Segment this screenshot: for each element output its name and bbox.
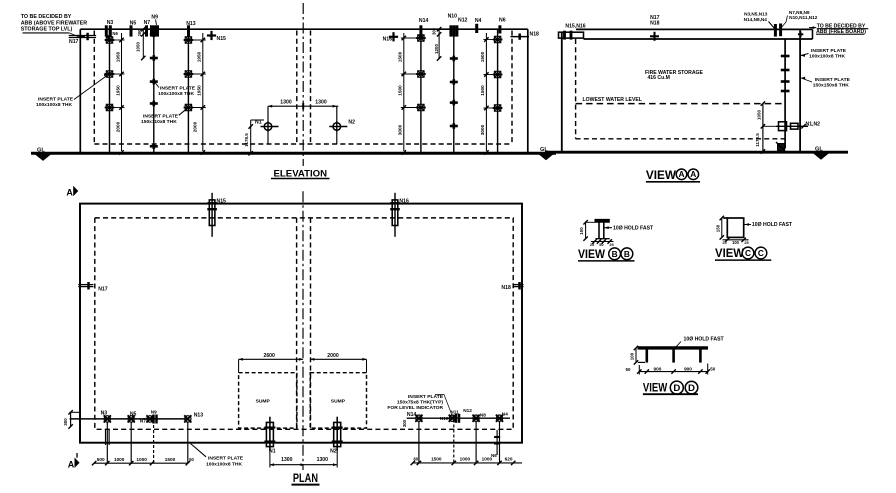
svg-text:TO BE DECIDED BY: TO BE DECIDED BY bbox=[21, 14, 72, 20]
insert plates on column C1 bbox=[106, 37, 112, 43]
svg-text:N13: N13 bbox=[186, 21, 196, 27]
svg-text:10Ø HOLD FAST: 10Ø HOLD FAST bbox=[613, 226, 654, 232]
dim line end arrows at ground bbox=[119, 150, 123, 154]
svg-text:N5: N5 bbox=[130, 21, 137, 27]
insert plates on column C6 bbox=[494, 36, 500, 42]
svg-text:N18: N18 bbox=[650, 21, 660, 27]
svg-text:N7: N7 bbox=[140, 418, 146, 423]
svg-text:N15: N15 bbox=[217, 199, 227, 205]
svg-text:INSERT PLATE: INSERT PLATE bbox=[811, 48, 847, 54]
svg-text:100x100x8 THK: 100x100x8 THK bbox=[36, 102, 72, 108]
svg-text:100x100x8 THK: 100x100x8 THK bbox=[158, 91, 194, 97]
svg-text:100x100x8 THK: 100x100x8 THK bbox=[206, 461, 242, 467]
elevation ground line bbox=[31, 152, 556, 155]
nozzle N14 stub bbox=[419, 25, 422, 36]
nozzle N6 stub right bbox=[498, 25, 501, 33]
elevation left wall bbox=[79, 29, 81, 153]
plan vertical centerline bbox=[302, 191, 304, 470]
svg-text:VIEW: VIEW bbox=[646, 168, 677, 182]
nozzle N18 stub on right wall bbox=[511, 36, 530, 38]
svg-text:1950: 1950 bbox=[115, 85, 120, 96]
viewBB stem bbox=[598, 222, 600, 238]
svg-text:416 Cu.M: 416 Cu.M bbox=[647, 75, 670, 81]
viewAA ground line bbox=[545, 151, 848, 154]
plan nozzle N15 top bbox=[211, 193, 213, 237]
nozzle N4 stub right bbox=[475, 24, 478, 33]
svg-text:PLAN: PLAN bbox=[293, 471, 318, 485]
svg-text:SUMP: SUMP bbox=[256, 399, 271, 405]
svg-text:N2: N2 bbox=[348, 119, 355, 125]
svg-text:D: D bbox=[673, 383, 680, 394]
viewAA dim 1050 bbox=[762, 104, 764, 127]
viewAA nozzle N15,N16 flange box bbox=[559, 32, 584, 38]
plan bottom-right nozzle line bbox=[407, 417, 510, 419]
nozzle N17 stub on left wall bbox=[69, 35, 96, 37]
svg-text:N12: N12 bbox=[463, 408, 472, 413]
svg-text:10Ø HOLD FAST: 10Ø HOLD FAST bbox=[684, 336, 725, 342]
svg-text:1500: 1500 bbox=[397, 51, 402, 62]
svg-text:N14: N14 bbox=[419, 18, 429, 24]
viewAA nozzle N1,N2 stub bbox=[776, 125, 808, 127]
svg-text:N6: N6 bbox=[112, 31, 118, 36]
plan nozzle N8 bbox=[473, 415, 479, 421]
svg-text:A: A bbox=[678, 169, 684, 179]
svg-text:D: D bbox=[688, 383, 695, 394]
svg-text:1000: 1000 bbox=[460, 457, 471, 462]
svg-text:3000: 3000 bbox=[397, 124, 402, 135]
plan sump 1 dashed outline bbox=[239, 373, 297, 428]
small dim 200/1050 at column C2 bbox=[142, 29, 144, 59]
svg-text:N18: N18 bbox=[501, 285, 511, 291]
viewAA inner dashed bottom bbox=[576, 138, 786, 140]
svg-text:300: 300 bbox=[402, 419, 407, 427]
svg-text:300: 300 bbox=[432, 27, 437, 35]
svg-text:100: 100 bbox=[732, 240, 740, 245]
svg-text:1178.5: 1178.5 bbox=[755, 133, 760, 147]
svg-text:SUMP: SUMP bbox=[331, 399, 346, 405]
elevation right wall bbox=[527, 29, 529, 153]
svg-text:VIEW: VIEW bbox=[715, 246, 745, 260]
plan dim 2000 over sump 2 bbox=[310, 358, 366, 360]
svg-text:300: 300 bbox=[63, 418, 68, 426]
plan nozzle N3 bbox=[104, 416, 110, 422]
viewAA roof nozzle stub bbox=[774, 24, 777, 37]
viewAA wall top tick bbox=[800, 32, 802, 38]
svg-text:INSERT PLATE: INSERT PLATE bbox=[160, 86, 196, 92]
svg-text:1500: 1500 bbox=[480, 51, 485, 62]
viewDD hold fast bar bbox=[638, 346, 709, 349]
viewBB leader and label 10 dia hold fast bbox=[605, 227, 613, 229]
plan nozzle N4 bbox=[496, 415, 502, 421]
dim 1178.5 below N1 bbox=[250, 120, 252, 153]
svg-text:200: 200 bbox=[137, 29, 142, 37]
svg-text:N18: N18 bbox=[530, 32, 540, 38]
elevation inner dashed left wall face bbox=[93, 31, 95, 145]
svg-text:1000: 1000 bbox=[482, 457, 493, 462]
svg-text:N10: N10 bbox=[440, 416, 449, 421]
elevation tank top line bbox=[80, 28, 528, 30]
svg-text:N15: N15 bbox=[217, 36, 227, 42]
svg-text:2600: 2600 bbox=[263, 353, 275, 359]
viewAA right wall outer face bbox=[799, 29, 801, 151]
svg-text:50: 50 bbox=[710, 366, 715, 371]
svg-text:A: A bbox=[690, 169, 696, 179]
svg-text:ELEVATION: ELEVATION bbox=[274, 168, 328, 178]
svg-text:N10,N11,N12: N10,N11,N12 bbox=[789, 15, 818, 20]
plan nozzles N7 N9 bbox=[147, 416, 153, 422]
plan nozzles N10 N11 bbox=[449, 415, 455, 421]
nozzle N3 stub bbox=[105, 25, 108, 36]
viewAA dim 1178.5 bbox=[762, 126, 764, 151]
elevation column C3 at N13 bbox=[187, 29, 189, 153]
viewAA left wall bbox=[561, 33, 563, 152]
svg-text:150: 150 bbox=[715, 224, 720, 232]
svg-text:N7: N7 bbox=[144, 20, 151, 26]
svg-text:N2: N2 bbox=[330, 448, 337, 454]
svg-text:N3: N3 bbox=[107, 20, 114, 26]
plan bottom-left nozzle line bbox=[70, 418, 188, 420]
dim line left of column C6 with 1500/1500/3000 bbox=[485, 33, 487, 151]
svg-text:2000: 2000 bbox=[192, 121, 197, 132]
viewAA roof slab right end cap bbox=[812, 29, 814, 39]
svg-text:GL: GL bbox=[540, 147, 548, 153]
svg-text:500: 500 bbox=[97, 457, 105, 462]
svg-text:N9: N9 bbox=[151, 409, 157, 414]
svg-text:N17: N17 bbox=[69, 39, 79, 45]
plan sump 2 dashed outline bbox=[310, 373, 366, 428]
svg-text:60: 60 bbox=[414, 457, 419, 462]
svg-text:150x75x8 THK(TYP): 150x75x8 THK(TYP) bbox=[397, 399, 443, 405]
svg-text:150x110x8 THK: 150x110x8 THK bbox=[141, 119, 177, 125]
viewCC bottom dims 25 100 25 bbox=[723, 239, 749, 241]
svg-text:N5: N5 bbox=[130, 411, 137, 417]
plan nozzle N2 flange bbox=[336, 417, 338, 451]
viewAA center cross N17 N18 bbox=[653, 32, 655, 41]
nozzle N7 stub bbox=[145, 25, 148, 36]
insert plates on column C4 bbox=[418, 35, 424, 41]
viewDD hold fast stems bbox=[645, 349, 648, 363]
svg-text:N8: N8 bbox=[480, 413, 486, 418]
svg-text:1000: 1000 bbox=[136, 457, 147, 462]
viewBB hold fast T symbol top plate bbox=[595, 219, 610, 223]
elevation column C5 at N10/N12 bbox=[453, 29, 455, 153]
nozzle N15 cross bbox=[207, 34, 216, 36]
svg-text:GL: GL bbox=[815, 147, 823, 153]
plan nozzle N5 bbox=[128, 416, 134, 422]
plan inner dashed rectangle bbox=[95, 218, 513, 429]
svg-text:1000: 1000 bbox=[114, 457, 125, 462]
svg-text:N16: N16 bbox=[383, 37, 393, 43]
svg-text:N6: N6 bbox=[499, 17, 506, 23]
plan nozzle N13 bbox=[185, 416, 191, 422]
viewCC dim 150 bbox=[721, 218, 723, 237]
nozzle N16 cross bbox=[389, 36, 398, 38]
plan partition wall dashed edges bbox=[296, 218, 298, 429]
elevation vertical centerline bbox=[302, 3, 304, 166]
plan nozzle N1 flange bbox=[269, 417, 271, 451]
svg-text:N16: N16 bbox=[399, 199, 409, 205]
svg-text:1200: 1200 bbox=[434, 44, 439, 54]
svg-text:B: B bbox=[624, 249, 630, 259]
svg-text:10Ø HOLD FAST: 10Ø HOLD FAST bbox=[752, 222, 793, 228]
svg-text:1178.5: 1178.5 bbox=[244, 133, 249, 147]
svg-text:N10: N10 bbox=[448, 14, 458, 20]
svg-text:100x100x8 THK: 100x100x8 THK bbox=[809, 53, 845, 59]
svg-text:1500: 1500 bbox=[165, 457, 176, 462]
svg-text:N12: N12 bbox=[458, 17, 468, 23]
viewAA roof slab top line bbox=[576, 28, 813, 30]
plan outer wall rectangle bbox=[80, 204, 522, 443]
svg-text:1950: 1950 bbox=[115, 51, 120, 62]
insert plates on column C3 bbox=[185, 37, 191, 43]
svg-text:1500: 1500 bbox=[480, 85, 485, 96]
svg-text:N14,N8,N4: N14,N8,N4 bbox=[744, 17, 768, 22]
svg-text:N4: N4 bbox=[502, 411, 508, 416]
svg-text:3000: 3000 bbox=[480, 124, 485, 135]
elevation column C2 at N5/N7 bbox=[153, 29, 155, 153]
svg-text:C: C bbox=[745, 248, 751, 258]
viewDD dim 100 bbox=[635, 348, 637, 363]
svg-text:1500: 1500 bbox=[431, 457, 442, 462]
svg-text:N15,N16: N15,N16 bbox=[565, 24, 585, 30]
svg-text:ABB (ABOVE FIREWATER: ABB (ABOVE FIREWATER bbox=[21, 20, 88, 26]
nozzle N2 in elevation bbox=[333, 123, 341, 131]
plan nozzle N18 right bbox=[513, 284, 524, 286]
svg-text:1300: 1300 bbox=[315, 100, 327, 106]
elevation partition wall dashed edges bbox=[296, 31, 298, 145]
svg-text:GL: GL bbox=[37, 147, 45, 153]
plan bottom-right extension lines bbox=[418, 421, 420, 463]
svg-text:C: C bbox=[758, 248, 764, 258]
viewDD bottom dim line 50 900 900 50 bbox=[639, 371, 707, 373]
dim line left of column C4 with 1500/1500/3000 bbox=[403, 33, 405, 151]
svg-text:VIEW: VIEW bbox=[643, 381, 668, 395]
svg-text:B: B bbox=[612, 249, 618, 259]
viewBB bottom dims 25 50 25 bbox=[591, 241, 614, 243]
small dim 300/1200 at column C5 bbox=[438, 29, 440, 59]
svg-text:50: 50 bbox=[626, 367, 631, 372]
svg-text:150x150x8 THK: 150x150x8 THK bbox=[813, 82, 849, 88]
svg-text:1500: 1500 bbox=[397, 85, 402, 96]
plan nozzle N14 bbox=[416, 415, 422, 421]
elevation column C1 at N3 bbox=[109, 29, 111, 153]
svg-text:N17: N17 bbox=[98, 287, 108, 293]
plan nozzle N17 left bbox=[78, 284, 93, 286]
svg-text:620: 620 bbox=[505, 457, 513, 462]
plan dim 1300 1300 below sumps bbox=[270, 464, 337, 466]
nozzle N9 stubs bbox=[150, 25, 153, 36]
nozzle N1 in elevation bbox=[264, 123, 272, 131]
svg-text:1300: 1300 bbox=[280, 100, 292, 106]
viewCC leader and label 10 dia hold fast bbox=[744, 224, 751, 226]
elevation inner dashed bottom bbox=[94, 143, 512, 145]
viewBB dim 100 bbox=[585, 222, 587, 238]
viewAA lowest water level dashed line bbox=[576, 103, 786, 105]
svg-text:N14: N14 bbox=[407, 412, 417, 418]
dim line right of column C1 with 1950/1950/2000 bbox=[121, 33, 123, 151]
dim 1300 1300 between N1 and N2 bbox=[268, 105, 338, 107]
elevation column C4 at N14 bbox=[420, 29, 422, 153]
nozzle N13 stub bbox=[187, 25, 190, 36]
svg-text:1950: 1950 bbox=[196, 51, 201, 62]
plate ticks on column C2 bbox=[150, 33, 158, 36]
svg-text:50: 50 bbox=[189, 457, 194, 462]
svg-text:2000: 2000 bbox=[327, 353, 339, 359]
nozzle N10/N11/N12 stubs bbox=[449, 25, 452, 36]
svg-text:LOWEST WATER LEVEL: LOWEST WATER LEVEL bbox=[583, 97, 642, 103]
svg-text:1950: 1950 bbox=[196, 85, 201, 96]
svg-text:1050: 1050 bbox=[136, 42, 141, 52]
viewAA hatch mark at wall base bbox=[778, 144, 785, 152]
svg-text:N3: N3 bbox=[101, 411, 108, 417]
svg-text:INSERT PLATE: INSERT PLATE bbox=[38, 97, 74, 103]
svg-text:2000: 2000 bbox=[115, 121, 120, 132]
svg-text:INSERT PLATE: INSERT PLATE bbox=[208, 455, 244, 461]
svg-text:VIEW: VIEW bbox=[578, 247, 606, 261]
viewAA inner dashed left wall face bbox=[575, 39, 577, 139]
elevation column C6 bbox=[497, 29, 499, 153]
svg-text:900: 900 bbox=[653, 366, 661, 371]
svg-text:N7,N8,N9: N7,N8,N9 bbox=[789, 10, 810, 15]
plan level indicator nozzle flange bbox=[496, 430, 498, 455]
plan dim chain 500 1000 1000 1500 bbox=[94, 462, 188, 464]
plan bottom-left nozzle extension lines bbox=[106, 422, 108, 463]
svg-text:N3,N5,N13: N3,N5,N13 bbox=[744, 11, 768, 16]
svg-text:FOR LEVEL INDICATOR: FOR LEVEL INDICATOR bbox=[387, 405, 443, 411]
svg-text:N13: N13 bbox=[194, 412, 204, 418]
svg-text:100: 100 bbox=[629, 352, 634, 360]
svg-text:1050: 1050 bbox=[756, 110, 761, 120]
viewAA roof slab bottom line bbox=[584, 38, 813, 40]
viewAA insert plate ticks on right wall bbox=[781, 55, 790, 58]
plan dim 2600 over sump 1 bbox=[239, 358, 304, 360]
elevation inner dashed right wall face bbox=[511, 31, 513, 145]
svg-text:A: A bbox=[68, 459, 75, 469]
plate ticks on column C5 bbox=[450, 57, 458, 60]
svg-text:N4: N4 bbox=[475, 18, 482, 24]
svg-text:STORAGE TOP LVL): STORAGE TOP LVL) bbox=[21, 26, 73, 32]
dim line right of column C3 with 1950/1950/2000 bbox=[202, 33, 204, 151]
plan dim chain right 1500 1000 1000 620 bbox=[413, 462, 522, 464]
plan nozzle N16 top bbox=[394, 193, 396, 237]
viewAA right wall inner face bbox=[784, 39, 786, 149]
svg-text:A: A bbox=[66, 187, 73, 197]
svg-text:N1,N2: N1,N2 bbox=[806, 121, 821, 127]
svg-text:N9: N9 bbox=[151, 15, 158, 21]
svg-text:900: 900 bbox=[684, 366, 692, 371]
viewCC hold fast channel symbol bbox=[727, 218, 743, 237]
plan dim 300 left bbox=[70, 412, 72, 426]
svg-text:INSERT PLATE: INSERT PLATE bbox=[143, 114, 179, 120]
svg-text:INSERT PLATE: INSERT PLATE bbox=[815, 77, 851, 83]
svg-text:1300: 1300 bbox=[281, 457, 293, 463]
svg-text:1300: 1300 bbox=[317, 457, 329, 463]
svg-text:100: 100 bbox=[579, 227, 584, 235]
nozzle N5 stub bbox=[130, 25, 133, 36]
